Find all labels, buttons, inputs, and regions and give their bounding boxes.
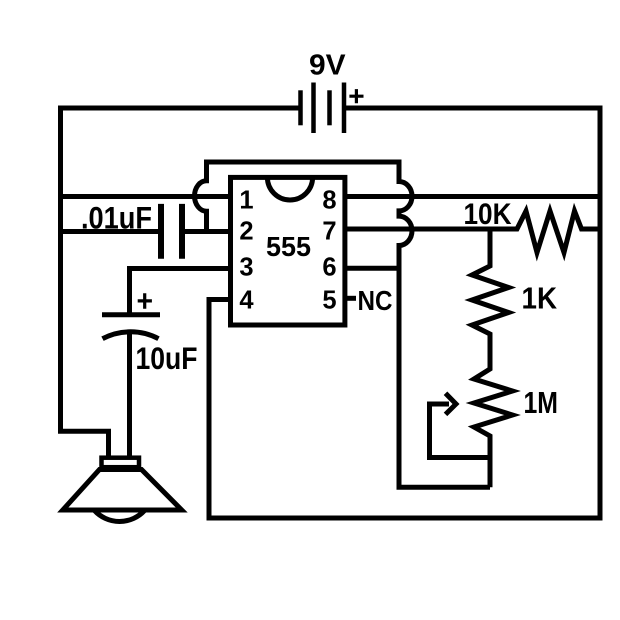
svg-text:.01uF: .01uF <box>81 199 152 235</box>
svg-text:10uF: 10uF <box>136 340 198 376</box>
svg-text:6: 6 <box>322 253 336 281</box>
svg-text:5: 5 <box>322 286 336 314</box>
svg-text:1M: 1M <box>524 385 559 420</box>
svg-text:3: 3 <box>239 253 253 281</box>
svg-text:NC: NC <box>358 285 393 316</box>
svg-text:4: 4 <box>239 286 254 314</box>
svg-text:7: 7 <box>322 218 336 246</box>
svg-text:10K: 10K <box>464 198 513 231</box>
svg-text:555: 555 <box>266 231 311 262</box>
svg-text:9V: 9V <box>309 50 346 82</box>
svg-text:1K: 1K <box>522 281 558 316</box>
svg-text:2: 2 <box>239 218 253 246</box>
svg-text:8: 8 <box>322 186 336 214</box>
svg-text:1: 1 <box>239 186 253 214</box>
